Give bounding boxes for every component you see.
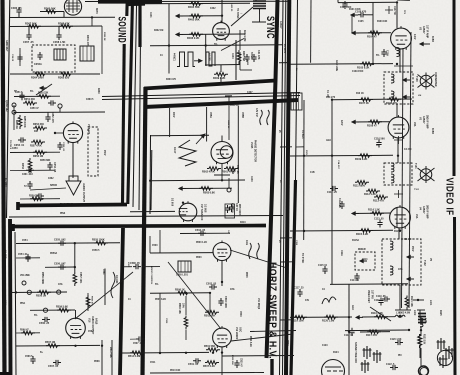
svg-text:2ND IF AMP: 2ND IF AMP bbox=[426, 115, 429, 129]
svg-text:R559 5.6K: R559 5.6K bbox=[56, 306, 68, 309]
svg-text:R367 56K: R367 56K bbox=[25, 22, 37, 26]
svg-text:C353 .01: C353 .01 bbox=[14, 144, 25, 147]
svg-text:SYNC: SYNC bbox=[250, 52, 253, 59]
svg-text:R500 1.2K: R500 1.2K bbox=[196, 242, 207, 244]
svg-text:V3A: V3A bbox=[413, 122, 416, 127]
svg-text:C402: C402 bbox=[210, 7, 216, 10]
svg-text:PIX: PIX bbox=[398, 355, 402, 357]
svg-text:R365 820: R365 820 bbox=[58, 76, 70, 80]
svg-text:R506 1K: R506 1K bbox=[175, 289, 185, 292]
svg-text:OSC: OSC bbox=[239, 327, 242, 332]
svg-text:R503 18K: R503 18K bbox=[178, 303, 181, 314]
svg-text:C362: C362 bbox=[48, 178, 54, 180]
svg-text:R124: R124 bbox=[333, 351, 339, 354]
svg-text:C566 5: C566 5 bbox=[25, 356, 33, 358]
svg-text:C5 270: C5 270 bbox=[404, 239, 412, 241]
svg-text:R511 8.2K: R511 8.2K bbox=[249, 336, 251, 347]
svg-text:C508 .05: C508 .05 bbox=[130, 262, 140, 265]
svg-text:GRID RET: GRID RET bbox=[5, 40, 8, 52]
svg-text:C120 1.5K: C120 1.5K bbox=[390, 338, 402, 341]
svg-text:5%: 5% bbox=[376, 55, 379, 57]
svg-text:5%: 5% bbox=[34, 315, 37, 317]
svg-text:C507 .05: C507 .05 bbox=[133, 343, 143, 345]
svg-text:R556 390K: R556 390K bbox=[41, 272, 44, 284]
svg-text:C557 10%: C557 10% bbox=[79, 272, 82, 284]
svg-text:R369 1K: R369 1K bbox=[103, 32, 105, 41]
svg-text:C409: C409 bbox=[250, 176, 253, 182]
svg-text:PIN3: PIN3 bbox=[60, 213, 66, 215]
svg-text:PIN1: PIN1 bbox=[20, 303, 26, 305]
svg-text:R402 1M: R402 1M bbox=[154, 29, 163, 32]
svg-text:3RD IF AMP: 3RD IF AMP bbox=[426, 205, 429, 219]
svg-text:12BZ7: 12BZ7 bbox=[422, 26, 425, 34]
svg-text:C501 .05: C501 .05 bbox=[188, 363, 199, 366]
svg-text:R406 2.2K: R406 2.2K bbox=[187, 36, 200, 40]
svg-text:6CB6: 6CB6 bbox=[431, 128, 433, 135]
svg-text:140V: 140V bbox=[413, 34, 416, 40]
svg-text:C561: C561 bbox=[102, 269, 104, 275]
svg-text:R113 47K: R113 47K bbox=[373, 199, 384, 202]
svg-text:C357 .25: C357 .25 bbox=[23, 40, 34, 44]
svg-text:150V: 150V bbox=[305, 150, 307, 156]
svg-text:R368 47K: R368 47K bbox=[58, 22, 70, 26]
svg-text:VOLUME: VOLUME bbox=[20, 275, 30, 277]
svg-text:6CB6: 6CB6 bbox=[431, 36, 433, 43]
svg-text:C55A: C55A bbox=[209, 112, 212, 118]
svg-text:C554: C554 bbox=[22, 239, 28, 242]
svg-text:R115 8.2K: R115 8.2K bbox=[356, 232, 368, 236]
svg-text:C111 .25: C111 .25 bbox=[327, 191, 337, 194]
svg-text:C109 1500: C109 1500 bbox=[352, 71, 364, 73]
svg-text:V14A: V14A bbox=[276, 21, 279, 27]
svg-text:C113 .05: C113 .05 bbox=[374, 218, 384, 221]
svg-text:1/2 6U8: 1/2 6U8 bbox=[171, 198, 173, 207]
svg-text:R125: R125 bbox=[439, 310, 441, 316]
svg-text:1ST IF AMP: 1ST IF AMP bbox=[426, 25, 429, 38]
svg-text:12BZ7: 12BZ7 bbox=[422, 116, 425, 124]
svg-text:44 A7: 44 A7 bbox=[173, 147, 176, 154]
svg-text:R351 330: R351 330 bbox=[24, 98, 35, 101]
svg-text:LM: LM bbox=[418, 95, 421, 97]
svg-text:C509: C509 bbox=[239, 311, 241, 317]
svg-text:C122 .5: C122 .5 bbox=[386, 363, 395, 366]
svg-text:R356 1K: R356 1K bbox=[15, 120, 17, 129]
svg-text:C408 39: C408 39 bbox=[227, 120, 230, 129]
svg-text:10%: 10% bbox=[398, 269, 403, 271]
svg-text:C403: C403 bbox=[231, 53, 234, 59]
svg-text:R108 270: R108 270 bbox=[386, 102, 397, 105]
svg-text:B+ 250V: B+ 250V bbox=[283, 44, 285, 53]
svg-text:R409 2.2K: R409 2.2K bbox=[213, 76, 226, 80]
svg-text:C562: C562 bbox=[88, 331, 94, 333]
svg-text:R505 8.2K: R505 8.2K bbox=[155, 299, 166, 301]
svg-text:V14B: V14B bbox=[250, 142, 253, 148]
svg-text:MIXER: MIXER bbox=[358, 248, 366, 251]
svg-text:C117 .25: C117 .25 bbox=[294, 287, 304, 290]
svg-text:R361 47K: R361 47K bbox=[86, 35, 89, 46]
svg-text:C354 .05: C354 .05 bbox=[53, 162, 56, 173]
svg-text:6AQ5: 6AQ5 bbox=[95, 318, 98, 325]
svg-text:R103 10K: R103 10K bbox=[377, 21, 388, 23]
svg-text:VIDEO DET: VIDEO DET bbox=[367, 290, 370, 303]
svg-text:T102: T102 bbox=[423, 260, 426, 266]
svg-text:C560 .25: C560 .25 bbox=[39, 322, 50, 325]
svg-text:HORIZ SWEEP & H.V.: HORIZ SWEEP & H.V. bbox=[267, 262, 279, 359]
svg-text:R508: R508 bbox=[245, 272, 247, 278]
svg-text:T101: T101 bbox=[414, 189, 420, 191]
svg-text:CONVERTER: CONVERTER bbox=[434, 72, 436, 87]
svg-text:AF AMP: AF AMP bbox=[4, 250, 7, 259]
svg-text:R115A: R115A bbox=[352, 239, 359, 242]
svg-text:C123: C123 bbox=[322, 345, 328, 347]
svg-text:180V: 180V bbox=[172, 112, 174, 118]
svg-text:C360 .05: C360 .05 bbox=[11, 6, 22, 10]
svg-text:C353: C353 bbox=[12, 148, 18, 150]
svg-text:R413: R413 bbox=[240, 221, 246, 224]
svg-text:C352 .005: C352 .005 bbox=[51, 112, 53, 123]
svg-text:C513: C513 bbox=[286, 340, 288, 346]
svg-text:R509 10K: R509 10K bbox=[231, 355, 233, 365]
svg-text:C407: C407 bbox=[247, 91, 253, 94]
svg-text:T101: T101 bbox=[414, 163, 417, 169]
svg-text:R556A: R556A bbox=[50, 252, 57, 255]
svg-text:R500: R500 bbox=[196, 257, 202, 259]
svg-text:C567 .05: C567 .05 bbox=[48, 365, 59, 368]
svg-text:C556 .047: C556 .047 bbox=[54, 263, 66, 266]
svg-text:TO PIN 5: TO PIN 5 bbox=[9, 140, 11, 150]
svg-text:R354: R354 bbox=[21, 163, 24, 170]
svg-text:R411: R411 bbox=[246, 60, 249, 66]
svg-text:12AU7: 12AU7 bbox=[279, 21, 282, 29]
svg-text:44 AUD: 44 AUD bbox=[115, 275, 118, 284]
svg-text:R566 47: R566 47 bbox=[20, 328, 29, 331]
svg-text:TP: TP bbox=[14, 91, 17, 93]
svg-text:5%: 5% bbox=[155, 284, 158, 286]
svg-text:L104: L104 bbox=[429, 300, 432, 306]
svg-text:TO AGC: TO AGC bbox=[301, 130, 304, 139]
svg-text:C400 10: C400 10 bbox=[230, 3, 233, 12]
svg-text:C114: C114 bbox=[362, 258, 368, 261]
svg-text:L102: L102 bbox=[413, 310, 415, 316]
svg-text:R560 470: R560 470 bbox=[91, 296, 94, 306]
svg-text:R117 47K: R117 47K bbox=[366, 334, 377, 337]
svg-text:10%: 10% bbox=[230, 289, 235, 291]
svg-text:R567 1M: R567 1M bbox=[45, 341, 55, 344]
svg-text:R501 56K: R501 56K bbox=[204, 345, 215, 348]
svg-text:TO SYNC: TO SYNC bbox=[236, 8, 239, 19]
svg-text:44 A80: 44 A80 bbox=[208, 53, 211, 61]
svg-text:R410 2.2M: R410 2.2M bbox=[243, 30, 246, 41]
svg-text:C41 47K: C41 47K bbox=[257, 50, 260, 60]
svg-text:T100: T100 bbox=[415, 76, 418, 82]
svg-text:C1B: C1B bbox=[310, 172, 315, 174]
svg-text:R563 6.8K: R563 6.8K bbox=[203, 192, 215, 195]
svg-text:C11A: C11A bbox=[340, 250, 343, 256]
svg-text:C1A 1S7: C1A 1S7 bbox=[337, 160, 340, 170]
svg-text:R403 470: R403 470 bbox=[166, 78, 177, 81]
svg-text:C358 1.5K: C358 1.5K bbox=[53, 40, 66, 44]
svg-text:C110 560: C110 560 bbox=[374, 138, 385, 141]
svg-text:C47 10: C47 10 bbox=[235, 203, 238, 211]
svg-text:C356A: C356A bbox=[34, 63, 42, 66]
svg-text:12V P-P: 12V P-P bbox=[255, 108, 258, 117]
svg-text:R404 56K: R404 56K bbox=[188, 5, 200, 9]
svg-text:R513 10K: R513 10K bbox=[170, 370, 181, 372]
svg-text:R120 1.5M: R120 1.5M bbox=[322, 320, 334, 323]
svg-text:C503 1000: C503 1000 bbox=[224, 296, 227, 308]
svg-text:R507 2.2K: R507 2.2K bbox=[203, 365, 215, 368]
svg-text:C511: C511 bbox=[150, 362, 156, 364]
svg-text:5%: 5% bbox=[376, 145, 379, 147]
svg-text:R353 1M: R353 1M bbox=[33, 155, 43, 158]
svg-text:R13 270: R13 270 bbox=[326, 96, 336, 99]
svg-text:SYNC: SYNC bbox=[264, 16, 276, 39]
svg-text:R106 47: R106 47 bbox=[367, 123, 377, 127]
svg-text:L103 4.5M: L103 4.5M bbox=[399, 312, 410, 315]
svg-text:C55B: C55B bbox=[241, 112, 243, 118]
svg-text:C504 .05: C504 .05 bbox=[195, 229, 206, 232]
svg-text:V16: V16 bbox=[88, 318, 91, 323]
svg-text:C363 5: C363 5 bbox=[86, 99, 94, 101]
svg-text:R119 15M: R119 15M bbox=[292, 320, 303, 323]
svg-text:C107 68: C107 68 bbox=[393, 6, 395, 15]
svg-text:T2 OUTPUT: T2 OUTPUT bbox=[60, 204, 73, 206]
svg-text:R105 8.2K: R105 8.2K bbox=[357, 65, 370, 69]
svg-text:QUAD DET: QUAD DET bbox=[5, 100, 8, 113]
svg-text:R512 2.2M: R512 2.2M bbox=[128, 355, 140, 358]
svg-text:R350 22K: R350 22K bbox=[38, 93, 49, 95]
svg-text:C112 .25: C112 .25 bbox=[338, 198, 341, 208]
svg-text:R369: R369 bbox=[97, 88, 99, 94]
svg-text:V11 6BQ6: V11 6BQ6 bbox=[257, 298, 260, 310]
svg-text:C115 10: C115 10 bbox=[318, 264, 328, 267]
svg-text:C506: C506 bbox=[165, 318, 167, 324]
svg-text:C116: C116 bbox=[295, 240, 297, 246]
svg-text:TO SYNC: TO SYNC bbox=[301, 253, 303, 264]
svg-text:R115B: R115B bbox=[394, 231, 401, 233]
svg-text:44 H: 44 H bbox=[245, 240, 248, 245]
svg-text:R360 56K: R360 56K bbox=[44, 7, 56, 11]
svg-text:AUDIO OUTPUT: AUDIO OUTPUT bbox=[82, 183, 85, 203]
svg-text:C510 47: C510 47 bbox=[240, 358, 243, 367]
svg-text:V4A: V4A bbox=[415, 214, 418, 219]
svg-text:C502 .05: C502 .05 bbox=[206, 283, 217, 286]
svg-text:R122 10K: R122 10K bbox=[423, 334, 425, 345]
svg-text:1ST SOUND IF: 1ST SOUND IF bbox=[200, 204, 203, 221]
svg-text:C109: C109 bbox=[386, 50, 389, 56]
svg-text:R359 270: R359 270 bbox=[29, 195, 40, 197]
svg-text:R10 1K: R10 1K bbox=[356, 93, 364, 95]
svg-text:150V: 150V bbox=[103, 150, 105, 156]
svg-text:R352 330: R352 330 bbox=[33, 123, 44, 126]
svg-text:C359 .02: C359 .02 bbox=[62, 142, 64, 152]
svg-text:C4 270: C4 270 bbox=[404, 148, 412, 151]
svg-text:R558 1M: R558 1M bbox=[36, 295, 46, 298]
svg-text:L500: L500 bbox=[127, 262, 129, 268]
svg-text:12BZ7: 12BZ7 bbox=[422, 206, 425, 214]
svg-text:C350 47: C350 47 bbox=[30, 107, 39, 110]
svg-text:R568: R568 bbox=[94, 361, 100, 363]
svg-text:R561 470K: R561 470K bbox=[222, 171, 235, 174]
svg-text:C401: C401 bbox=[149, 12, 152, 18]
svg-text:C105: C105 bbox=[358, 21, 364, 23]
svg-text:R109 8.2K: R109 8.2K bbox=[355, 157, 368, 161]
svg-text:C555 .042: C555 .042 bbox=[54, 239, 66, 242]
svg-text:C114 10: C114 10 bbox=[350, 279, 360, 282]
svg-text:R112 1.2K: R112 1.2K bbox=[364, 193, 376, 196]
svg-text:1/2 6U8: 1/2 6U8 bbox=[204, 204, 207, 213]
svg-text:44V: 44V bbox=[305, 299, 310, 302]
svg-text:6AV6: 6AV6 bbox=[4, 300, 7, 306]
svg-text:R512 56K: R512 56K bbox=[109, 347, 112, 358]
svg-text:HORIZ CONTROL: HORIZ CONTROL bbox=[150, 266, 152, 285]
svg-text:C554 .01: C554 .01 bbox=[18, 253, 28, 256]
svg-text:VIDEO IF: VIDEO IF bbox=[444, 178, 455, 216]
svg-text:AGC LINE: AGC LINE bbox=[335, 60, 338, 71]
svg-text:AGC: AGC bbox=[351, 305, 354, 310]
svg-text:R104 47: R104 47 bbox=[367, 35, 377, 39]
svg-text:R357 470K: R357 470K bbox=[30, 144, 42, 147]
svg-text:44 NZ1: 44 NZ1 bbox=[173, 53, 176, 62]
svg-text:V12 HORIZ: V12 HORIZ bbox=[235, 327, 238, 340]
svg-text:C500: C500 bbox=[152, 245, 158, 247]
svg-text:SOUND TAKE OFF: SOUND TAKE OFF bbox=[354, 342, 357, 364]
svg-text:SPKR: SPKR bbox=[50, 184, 57, 187]
svg-text:R114 1.5K: R114 1.5K bbox=[368, 209, 380, 212]
svg-text:R412 1K: R412 1K bbox=[230, 104, 239, 107]
svg-text:B+ 140V: B+ 140V bbox=[4, 178, 7, 187]
svg-text:C34 05: C34 05 bbox=[11, 54, 14, 62]
svg-text:R355 100K: R355 100K bbox=[23, 116, 25, 128]
svg-text:R358 68K: R358 68K bbox=[40, 160, 51, 162]
svg-text:R364 3900: R364 3900 bbox=[31, 76, 44, 80]
svg-text:120V: 120V bbox=[340, 120, 342, 126]
svg-text:5%: 5% bbox=[214, 44, 217, 46]
svg-text:10%: 10% bbox=[58, 284, 63, 286]
svg-text:C119: C119 bbox=[374, 299, 380, 302]
svg-text:150V: 150V bbox=[411, 246, 413, 252]
svg-text:R121 10K: R121 10K bbox=[410, 296, 413, 307]
svg-text:R562 470K: R562 470K bbox=[202, 171, 215, 174]
svg-text:R555 100K: R555 100K bbox=[92, 239, 105, 242]
svg-text:SOUND: SOUND bbox=[116, 17, 128, 44]
svg-text:R101 100K: R101 100K bbox=[349, 9, 361, 11]
svg-text:R573 3900: R573 3900 bbox=[238, 204, 240, 216]
svg-text:R111 6800: R111 6800 bbox=[353, 185, 366, 188]
svg-text:PHASE DETECTOR: PHASE DETECTOR bbox=[254, 140, 257, 162]
svg-text:V? 6AV6: V? 6AV6 bbox=[87, 124, 90, 135]
svg-text:AGC: AGC bbox=[326, 139, 331, 142]
svg-text:R405 56K: R405 56K bbox=[188, 18, 200, 22]
svg-text:R107 1K: R107 1K bbox=[359, 102, 369, 105]
svg-text:C361 .003: C361 .003 bbox=[22, 174, 33, 176]
svg-text:C560 .05: C560 .05 bbox=[231, 203, 234, 213]
svg-text:5%: 5% bbox=[30, 91, 33, 93]
svg-text:6DT6: 6DT6 bbox=[95, 8, 97, 14]
svg-text:C558 5: C558 5 bbox=[92, 250, 100, 252]
